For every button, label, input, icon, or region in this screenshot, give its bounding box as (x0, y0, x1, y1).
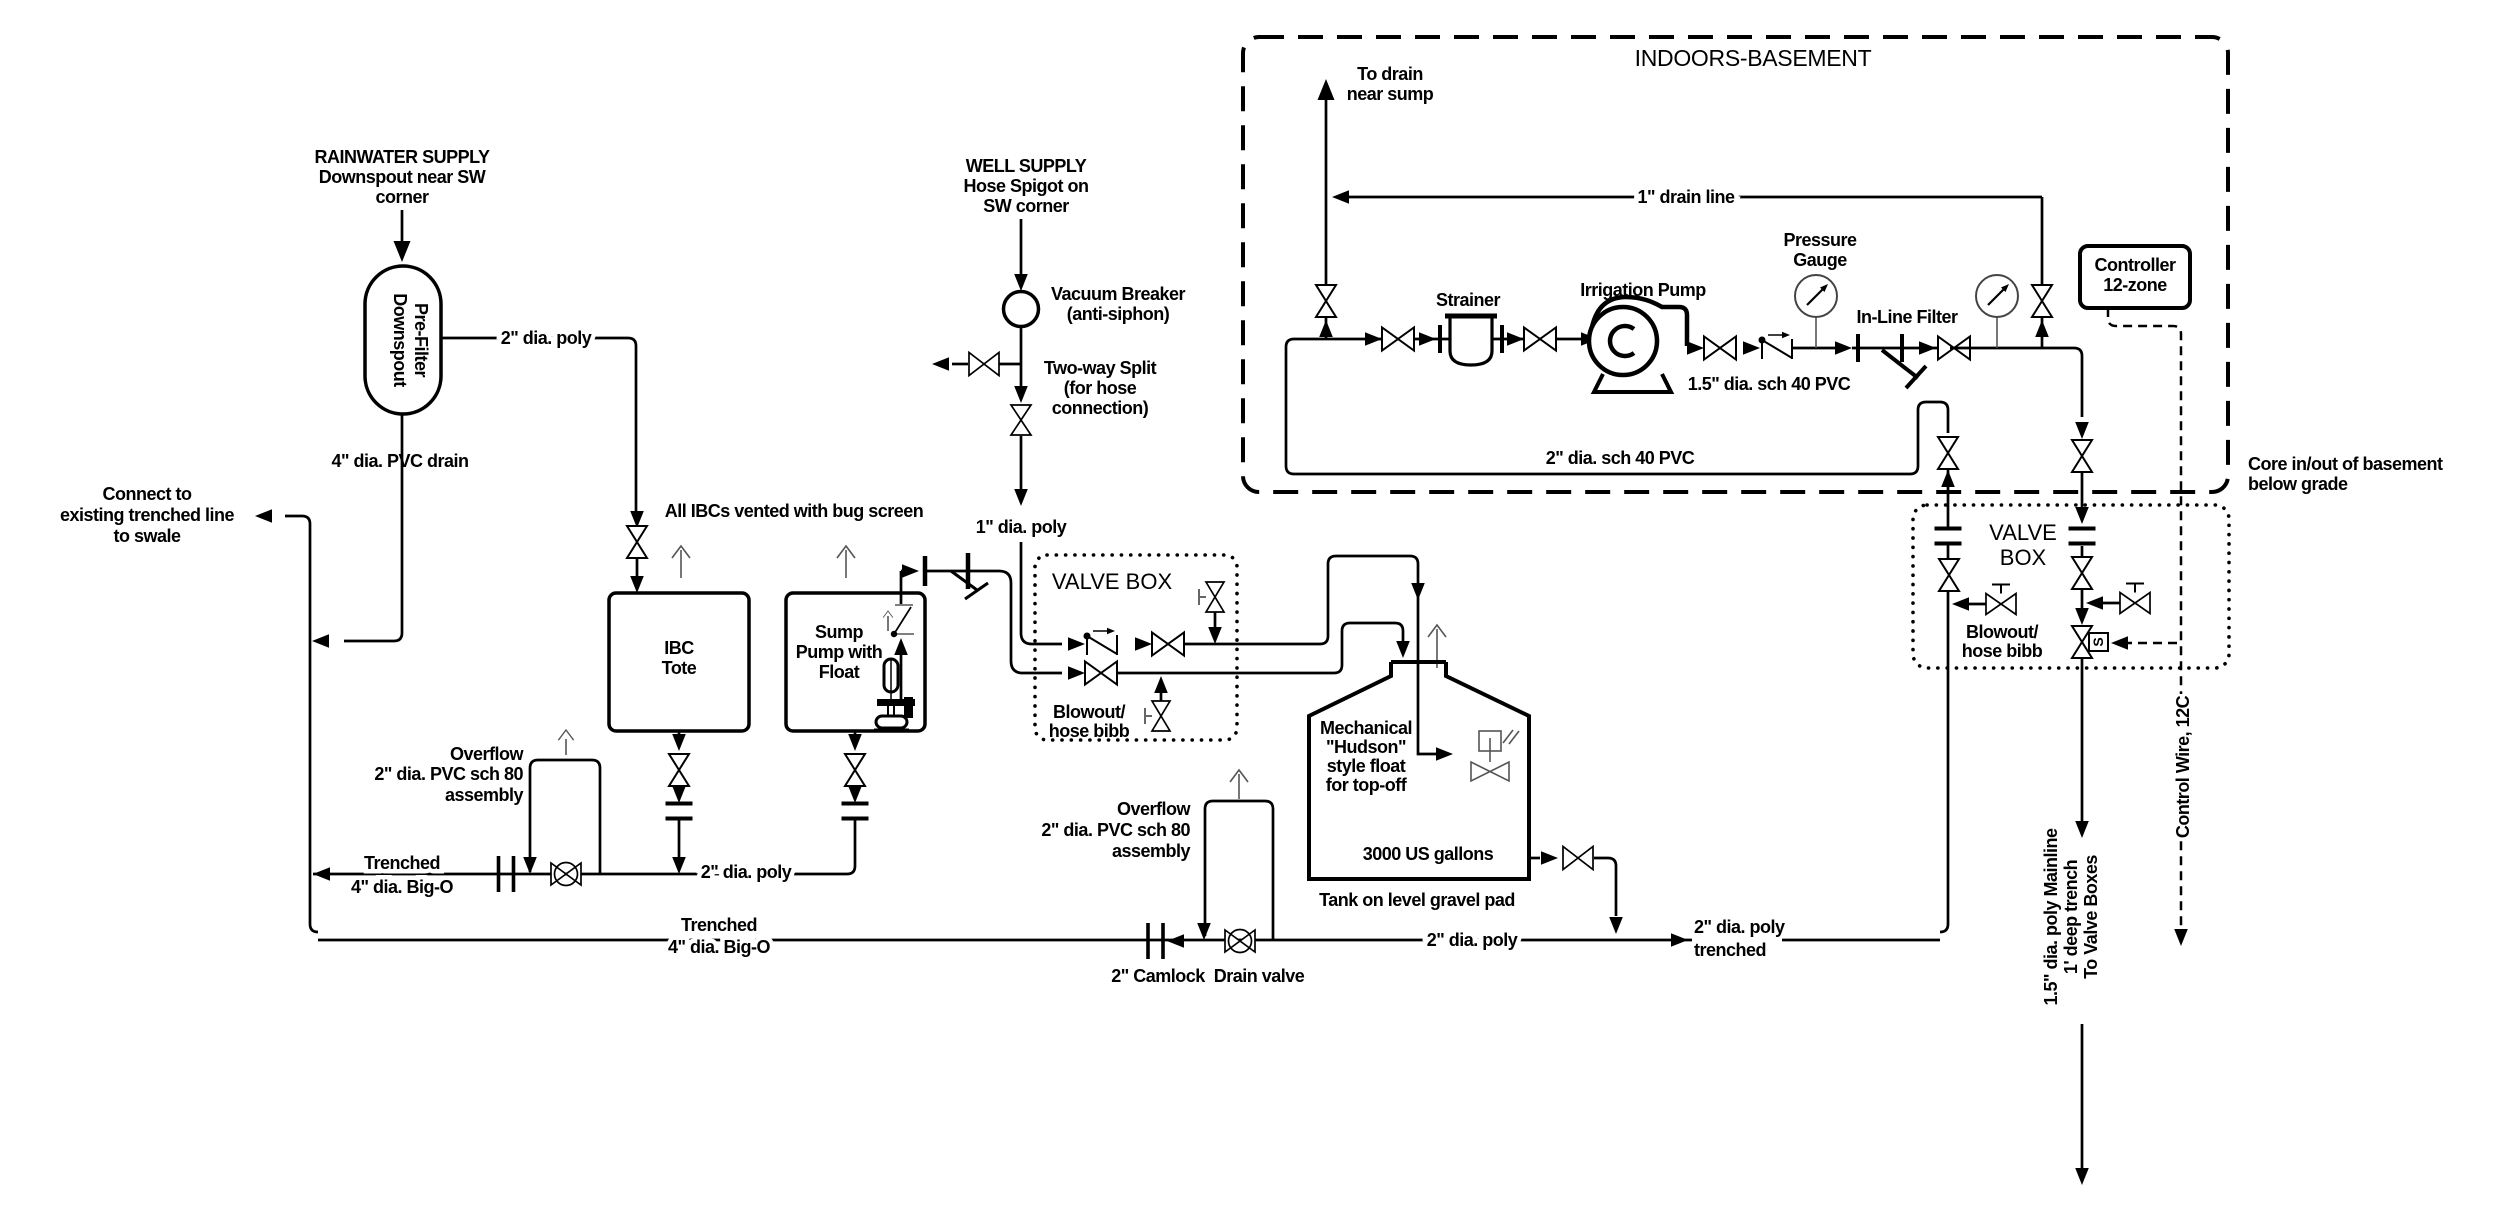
svg-text:Two-way Split: Two-way Split (1044, 358, 1157, 378)
hose bibb 1 (right valve box) (1986, 585, 2016, 615)
svg-text:2" dia. PVC sch 80: 2" dia. PVC sch 80 (1041, 820, 1190, 840)
camlock right valve box left line (1935, 529, 1962, 544)
sump float switch (883, 605, 914, 637)
svg-text:assembly: assembly (1112, 841, 1191, 861)
wire 2" dia poly from prefilter (441, 328, 644, 528)
svg-text:VALVE: VALVE (1989, 520, 2057, 545)
vacuum breaker circle (1004, 292, 1039, 327)
svg-text:Mechanical: Mechanical (1320, 718, 1412, 738)
valve on drain line riser (2032, 285, 2052, 317)
svg-text:Blowout/: Blowout/ (1053, 702, 1125, 722)
bottom bibb (1145, 676, 1170, 731)
drain riser right (2032, 197, 2052, 348)
pump discharge (1687, 332, 1852, 394)
svg-text:Strainer: Strainer (1436, 290, 1501, 310)
svg-text:To drain: To drain (1357, 64, 1423, 84)
hose bibb top (valve box) (1199, 582, 1224, 612)
label rainwater supply (314, 147, 490, 207)
wire 4" PVC drain from prefilter (312, 414, 469, 648)
svg-text:Trenched: Trenched (364, 853, 440, 873)
svg-text:1" drain line: 1" drain line (1637, 187, 1735, 207)
upper trench line (313, 853, 847, 897)
check valve in valve box upper pipe (1084, 628, 1118, 655)
left basement supply valve (1938, 437, 1958, 527)
controller (2080, 246, 2190, 308)
strainer (1436, 290, 1502, 365)
svg-text:(for hose: (for hose (1064, 378, 1137, 398)
tank outlet valve (1563, 847, 1593, 870)
svg-text:Downspout near SW: Downspout near SW (319, 167, 486, 187)
main suction line (1294, 328, 1589, 351)
pressure gauge 1 (1783, 230, 1857, 348)
svg-text:2" dia. poly: 2" dia. poly (701, 862, 792, 882)
svg-text:2" dia. PVC sch 80: 2" dia. PVC sch 80 (374, 764, 523, 784)
svg-text:Hose Spigot on: Hose Spigot on (964, 176, 1089, 196)
wire down from split (976, 364, 1067, 644)
svg-text:Tote: Tote (662, 658, 697, 678)
label overflow IBC (374, 744, 524, 805)
svg-text:below grade: below grade (2248, 474, 2348, 494)
tank outlet (1529, 847, 1623, 935)
svg-text:connection): connection) (1052, 398, 1149, 418)
wire downspout arrow (394, 210, 411, 262)
dotted box (1035, 555, 1237, 740)
label connect to swale (60, 484, 235, 546)
svg-text:Sump: Sump (815, 622, 864, 642)
svg-text:Float: Float (819, 662, 860, 682)
basement fill-drop valve (right riser) (2072, 440, 2092, 472)
downspout pre-filter capsule (365, 266, 441, 414)
wire into IBC (630, 558, 644, 593)
solenoid valve (2072, 626, 2108, 658)
svg-text:Pre-Filter: Pre-Filter (411, 303, 431, 378)
valve on sump drain (845, 754, 865, 786)
svg-text:RAINWATER SUPPLY: RAINWATER SUPPLY (314, 147, 490, 167)
svg-text:SW corner: SW corner (983, 196, 1069, 216)
globe valve on upper trench line (551, 863, 581, 886)
right fill drop (2072, 422, 2092, 512)
pressure gauge 2 (1976, 275, 2018, 348)
svg-text:1' deep trench: 1' deep trench (2061, 860, 2081, 974)
sump discharge line (901, 553, 1062, 673)
hudson float symbol (1471, 730, 1519, 781)
svg-text:INDOORS-BASEMENT: INDOORS-BASEMENT (1635, 45, 1872, 71)
svg-text:(anti-siphon): (anti-siphon) (1067, 304, 1170, 324)
to drain riser (1316, 79, 1336, 339)
svg-text:Control Wire, 12C: Control Wire, 12C (2173, 695, 2193, 838)
svg-text:Controller: Controller (2094, 255, 2175, 275)
svg-text:2" dia. poly: 2" dia. poly (1694, 917, 1785, 937)
svg-text:Blowout/: Blowout/ (1966, 622, 2038, 642)
svg-text:Gauge: Gauge (1793, 250, 1847, 270)
svg-text:1" dia. poly: 1" dia. poly (976, 517, 1067, 537)
valve on IBC drain (669, 754, 689, 786)
camlock on IBC drain (666, 804, 693, 819)
svg-text:Overflow: Overflow (1117, 799, 1192, 819)
svg-text:Overflow: Overflow (450, 744, 525, 764)
svg-text:Pressure: Pressure (1783, 230, 1857, 250)
svg-text:2" dia. sch 40 PVC: 2" dia. sch 40 PVC (1546, 448, 1695, 468)
svg-text:corner: corner (375, 187, 429, 207)
camlock on upper trench line (499, 856, 514, 892)
valve below two-way split (1011, 405, 1031, 435)
valve right valve box left line (1939, 559, 1959, 591)
svg-text:12-zone: 12-zone (2103, 275, 2167, 295)
right line in box (2069, 507, 2096, 625)
suction isolation valve 2 (1524, 328, 1556, 351)
camlock 2 inch on bottom trench line (1148, 923, 1163, 959)
basement supply valve (left riser) (1938, 437, 1958, 469)
svg-text:4" dia. Big-O: 4" dia. Big-O (351, 877, 454, 897)
svg-text:Core in/out of basement: Core in/out of basement (2248, 454, 2443, 474)
valve after in-line filter (1938, 337, 1970, 360)
svg-text:Tank on level gravel pad: Tank on level gravel pad (1319, 890, 1515, 910)
bibb 2 (2086, 584, 2150, 614)
svg-text:3000 US gallons: 3000 US gallons (1363, 844, 1494, 864)
isolation valve in valve box upper pipe (1152, 633, 1184, 656)
valve on hose branch (969, 353, 999, 376)
svg-text:Drain valve: Drain valve (1214, 966, 1305, 986)
hose bibb 2 (right valve box) (2120, 584, 2150, 614)
svg-text:2" dia. poly: 2" dia. poly (1427, 930, 1518, 950)
overflow assembly near IBC (523, 730, 600, 874)
svg-text:4" dia. Big-O: 4" dia. Big-O (668, 937, 771, 957)
sump pump icon (874, 638, 915, 730)
in-line filter (1852, 307, 1958, 388)
svg-text:In-Line Filter: In-Line Filter (1857, 307, 1958, 327)
svg-text:All IBCs vented with bug scree: All IBCs vented with bug screen (665, 501, 924, 521)
two-way split (932, 327, 1021, 376)
svg-text:hose bibb: hose bibb (1962, 641, 2043, 661)
wire lower fill (1334, 623, 1410, 673)
svg-text:Connect to: Connect to (103, 484, 192, 504)
valve on IBC feed (627, 526, 647, 558)
hose bibb bottom (valve box) (1145, 701, 1170, 731)
IBC drain (666, 731, 693, 874)
flow arrow into IBC feed valve (630, 511, 644, 528)
valve on to-drain riser (1316, 285, 1336, 317)
svg-text:To Valve Boxes: To Valve Boxes (2081, 855, 2101, 979)
svg-text:hose bibb: hose bibb (1049, 721, 1130, 741)
svg-text:Pump with: Pump with (796, 642, 883, 662)
left line in box (1935, 529, 1962, 933)
wire main left trench vertical (255, 509, 318, 932)
1" drain line (1332, 187, 2042, 207)
svg-text:IBC: IBC (664, 638, 694, 658)
svg-text:assembly: assembly (445, 785, 524, 805)
valve right valve box right line (2072, 557, 2092, 589)
top bibb (1199, 582, 1224, 644)
svg-text:VALVE BOX: VALVE BOX (1052, 569, 1173, 594)
wire well supply down (1014, 219, 1028, 291)
drain valve on bottom trench line (1225, 930, 1255, 953)
bottom loop 2" sch40 (1286, 339, 1948, 474)
svg-text:Downspout: Downspout (390, 293, 410, 387)
tank vent (1428, 625, 1446, 668)
svg-text:1.5" dia. sch 40 PVC: 1.5" dia. sch 40 PVC (1688, 374, 1851, 394)
svg-text:trenched: trenched (1694, 940, 1766, 960)
check valve after pump (1759, 332, 1793, 359)
mainline down (2041, 658, 2101, 1185)
svg-text:2" Camlock: 2" Camlock (1111, 966, 1206, 986)
svg-text:Vacuum Breaker: Vacuum Breaker (1051, 284, 1186, 304)
svg-text:4" dia. PVC drain: 4" dia. PVC drain (331, 451, 468, 471)
svg-text:2" dia. poly: 2" dia. poly (501, 328, 592, 348)
svg-text:S: S (2090, 637, 2106, 646)
sump drain (842, 731, 869, 874)
discharge isolation valve (1704, 337, 1736, 360)
svg-text:Trenched: Trenched (681, 915, 757, 935)
dashed border (1243, 37, 2228, 492)
tank overflow assembly (1197, 770, 1273, 940)
suction isolation valve 1 (1382, 328, 1414, 351)
svg-text:near sump: near sump (1347, 84, 1434, 104)
isolation valve in valve box lower pipe (1085, 662, 1117, 685)
svg-text:existing trenched line: existing trenched line (60, 505, 235, 525)
sump box (786, 593, 925, 731)
svg-text:BOX: BOX (2000, 545, 2047, 570)
wire upper fill (1320, 556, 1453, 761)
svg-text:for top-off: for top-off (1326, 775, 1408, 795)
vent sump (837, 546, 855, 578)
control wire dashed (2108, 308, 2194, 946)
irrigation pump (1580, 280, 1706, 392)
IBC tote box (609, 593, 749, 731)
bibb 1 (1952, 585, 2016, 615)
lower pipe valve (1068, 662, 1334, 685)
svg-text:style float: style float (1327, 756, 1406, 776)
svg-text:WELL SUPPLY: WELL SUPPLY (966, 156, 1087, 176)
svg-text:"Hudson": "Hudson" (1326, 737, 1406, 757)
vent IBC (672, 546, 690, 578)
svg-text:1.5" dia. poly Mainline: 1.5" dia. poly Mainline (2041, 828, 2061, 1006)
svg-text:to swale: to swale (113, 526, 181, 546)
upper pipe: check valve + valve (1068, 628, 1320, 656)
camlock right valve box right line (2069, 529, 2096, 544)
camlock on sump drain (842, 804, 869, 819)
